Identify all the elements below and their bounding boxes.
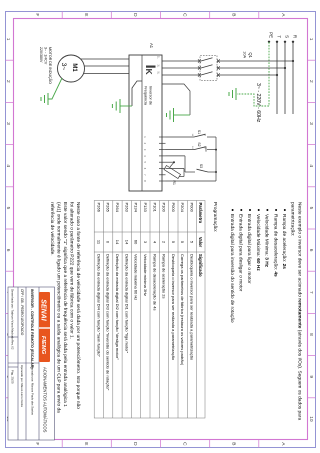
wire S breaker to inverter bbox=[162, 67, 201, 69]
svg-text:Rampa de aceleração 2s: Rampa de aceleração 2s bbox=[162, 254, 167, 298]
svg-text:10A: 10A bbox=[243, 51, 247, 58]
svg-text:14: 14 bbox=[124, 240, 129, 245]
wire S phase line bbox=[284, 42, 286, 114]
motor M1 bbox=[58, 55, 85, 82]
svg-text:Inversor de: Inversor de bbox=[148, 86, 152, 105]
svg-text:P000: P000 bbox=[190, 203, 195, 213]
op-amp U1 inverter block A1 bbox=[129, 43, 162, 191]
svg-text:FIEMG: FIEMG bbox=[40, 336, 46, 355]
title block box bbox=[8, 287, 55, 440]
svg-text:M1: M1 bbox=[71, 63, 77, 72]
svg-text:Desbloqueia o inversor para se: Desbloqueia o inversor para ser realizad… bbox=[190, 254, 195, 361]
svg-text:P204: P204 bbox=[180, 203, 185, 213]
wire bus to pin 8 bbox=[166, 180, 217, 182]
ground motor bbox=[41, 93, 48, 105]
svg-text:Carrega os parâmetros de fábri: Carrega os parâmetros de fábrica (restau… bbox=[180, 254, 185, 366]
node tap S bbox=[284, 67, 286, 69]
text bullet list bbox=[229, 209, 287, 323]
svg-text:PE: PE bbox=[269, 32, 274, 38]
svg-text:P134: P134 bbox=[134, 203, 139, 213]
wire V inverter to motor bbox=[84, 65, 130, 67]
frame column ticks top bbox=[308, 60, 316, 398]
svg-text:Definição da entrada digital D: Definição da entrada digital DI3 com fun… bbox=[106, 254, 111, 391]
svg-text:220/380V: 220/380V bbox=[39, 47, 43, 63]
svg-text:60: 60 bbox=[134, 240, 139, 245]
node bus junction S2 bbox=[215, 149, 217, 151]
transistor Q3 pushbutton S2 bbox=[166, 142, 217, 151]
svg-text:R1: R1 bbox=[172, 181, 176, 185]
svg-text:P133: P133 bbox=[143, 203, 148, 213]
svg-text:P101: P101 bbox=[152, 203, 157, 213]
svg-text:P265: P265 bbox=[106, 203, 111, 213]
svg-text:P263: P263 bbox=[124, 203, 129, 213]
pin ticks control terminals bbox=[159, 137, 166, 181]
svg-text:Definição da entrada digital D: Definição da entrada digital DI1 com fun… bbox=[124, 254, 129, 354]
table header row bbox=[198, 203, 203, 278]
svg-text:S: S bbox=[285, 35, 290, 38]
ground PE supply bbox=[229, 88, 236, 100]
svg-text:3~: 3~ bbox=[60, 63, 67, 71]
svg-text:P266: P266 bbox=[96, 203, 101, 213]
wire green to ground bbox=[120, 105, 132, 107]
wire T phase line bbox=[276, 42, 278, 114]
wire U inverter to motor bbox=[81, 58, 129, 60]
node PE supply terminal bbox=[268, 32, 274, 43]
frame column ticks bottom bbox=[6, 60, 14, 398]
breaker Q1 bbox=[200, 51, 253, 80]
svg-text:S1: S1 bbox=[197, 130, 201, 134]
pin number labels bbox=[143, 136, 147, 182]
node R supply terminal bbox=[292, 35, 298, 43]
ground shield bbox=[167, 108, 191, 122]
transistor Q4 switch S3 bbox=[166, 156, 217, 172]
label motor bbox=[39, 47, 53, 84]
wire drop T to breaker bbox=[217, 74, 277, 76]
svg-text:Parâmetro: Parâmetro bbox=[198, 203, 203, 224]
wire control bus bbox=[215, 137, 217, 181]
svg-text:14: 14 bbox=[115, 240, 120, 245]
frame row ticks left bbox=[62, 12, 259, 19]
svg-text:Revisado por: Marcos Paulo dos: Revisado por: Marcos Paulo dos Santos bbox=[31, 365, 35, 416]
node tap R bbox=[292, 60, 294, 62]
table data rows bbox=[96, 203, 194, 391]
wire motor ground bbox=[48, 78, 62, 99]
wire R phase line bbox=[292, 42, 294, 114]
svg-text:INVERSOR - CONTROLE REMOTO (ES: INVERSOR - CONTROLE REMOTO (ESCALAR) bbox=[30, 289, 34, 369]
svg-text:Rampa de desaceleração de 4s: Rampa de desaceleração de 4s bbox=[152, 254, 157, 310]
wire R breaker to inverter bbox=[162, 60, 201, 62]
svg-text:Desenhado por: Tadeum Viana Ma: Desenhado por: Tadeum Viana Machado bbox=[11, 289, 15, 340]
svg-text:3~ - 1/4CV: 3~ - 1/4CV bbox=[44, 47, 48, 65]
svg-text:Valor: Valor bbox=[198, 237, 203, 248]
svg-text:Aprovado por: Mauro Lúcio Cost: Aprovado por: Mauro Lúcio Costa bbox=[20, 365, 24, 407]
frame row ticks right bbox=[62, 440, 259, 448]
text intro heading bbox=[290, 202, 303, 420]
svg-text:P100: P100 bbox=[162, 203, 167, 213]
breaker terminal ticks bbox=[198, 59, 220, 77]
svg-text:Definição da entrada digital D: Definição da entrada digital DI2 com fun… bbox=[115, 254, 120, 360]
wire shield elbow bbox=[162, 84, 190, 115]
svg-text:Significado: Significado bbox=[198, 254, 203, 277]
svg-text:Definição da entrada digital D: Definição da entrada digital DI4 com fun… bbox=[96, 254, 101, 357]
svg-text:Velocidade mínima 3Hz: Velocidade mínima 3Hz bbox=[143, 254, 148, 296]
svg-text:S2: S2 bbox=[197, 142, 201, 146]
svg-text:ACIONAMENTOS AUTOMÁTICOS: ACIONAMENTOS AUTOMÁTICOS bbox=[43, 367, 48, 433]
wire drop R to breaker bbox=[217, 60, 293, 62]
svg-text:Pág. 25/25: Pág. 25/25 bbox=[11, 370, 15, 384]
node T supply terminal bbox=[276, 35, 282, 43]
svg-text:A1: A1 bbox=[149, 43, 154, 49]
svg-text:Frequência: Frequência bbox=[144, 86, 148, 106]
transistor Q2 pushbutton S1 bbox=[166, 130, 217, 137]
svg-text:S3: S3 bbox=[199, 164, 203, 168]
node bus junction S3 bbox=[215, 171, 217, 173]
node S supply terminal bbox=[284, 35, 290, 43]
svg-text:P264: P264 bbox=[115, 203, 120, 213]
svg-text:K: K bbox=[144, 69, 154, 76]
svg-text:Rev. 02: Rev. 02 bbox=[11, 340, 15, 350]
svg-text:T: T bbox=[277, 35, 282, 38]
text bottom paragraph bbox=[49, 202, 81, 413]
label input terminals bbox=[157, 56, 160, 75]
wire drop S to breaker bbox=[217, 67, 285, 69]
logo SENAI FIEMG bbox=[39, 292, 50, 362]
svg-text:Velocidade máxima 60 Hz: Velocidade máxima 60 Hz bbox=[134, 254, 139, 300]
svg-text:CFP / GB - PEDRO LEOPOLDO: CFP / GB - PEDRO LEOPOLDO bbox=[20, 289, 24, 336]
svg-text:R: R bbox=[293, 35, 298, 38]
resistor R1 potentiometer bbox=[164, 162, 184, 185]
wire T breaker to inverter bbox=[162, 74, 201, 76]
node tap T bbox=[276, 74, 278, 76]
wire PE elbow below inverter bbox=[132, 81, 142, 106]
node pot junction bbox=[173, 161, 175, 163]
wire PE dashed drop to ground bbox=[237, 94, 269, 106]
svg-text:P000: P000 bbox=[171, 203, 176, 213]
wire PE green dashed line bbox=[268, 42, 270, 106]
svg-text:Q1: Q1 bbox=[248, 52, 253, 58]
table parameters grid bbox=[94, 201, 205, 419]
frame row letters bbox=[34, 13, 286, 446]
ground inverter PE bbox=[112, 99, 120, 113]
svg-text:3~ - 220V - 60Hz: 3~ - 220V - 60Hz bbox=[255, 83, 261, 123]
svg-text:Desbloqueia o inversor para se: Desbloqueia o inversor para ser realizad… bbox=[171, 254, 176, 361]
svg-text:SENAI: SENAI bbox=[39, 299, 46, 321]
wire W inverter to motor bbox=[82, 73, 129, 75]
